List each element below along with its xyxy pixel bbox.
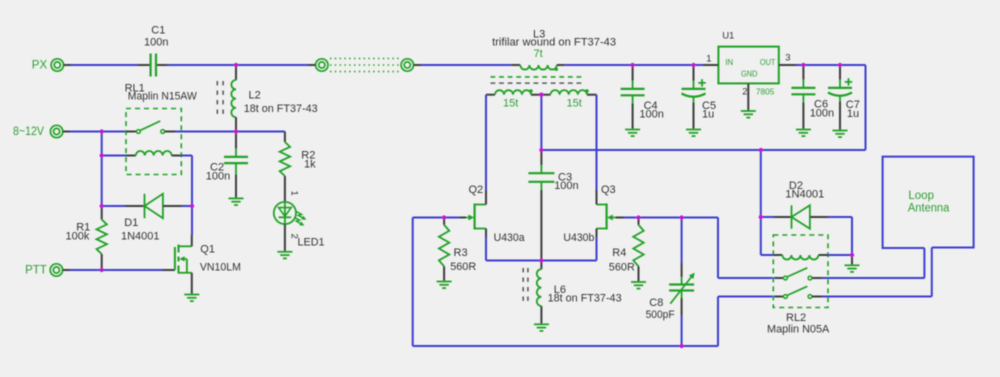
svg-text:R3: R3	[454, 247, 468, 259]
svg-text:Maplin N15AW: Maplin N15AW	[128, 90, 198, 102]
svg-text:100k: 100k	[66, 231, 90, 243]
svg-text:Maplin N05A: Maplin N05A	[767, 323, 830, 335]
svg-text:100n: 100n	[144, 37, 168, 49]
svg-text:U430a: U430a	[494, 232, 526, 244]
svg-text:1: 1	[706, 53, 711, 64]
svg-text:1N4001: 1N4001	[121, 230, 160, 242]
svg-text:15t: 15t	[503, 98, 518, 110]
svg-text:VN10LM: VN10LM	[200, 262, 241, 274]
svg-text:OUT: OUT	[760, 58, 776, 67]
svg-text:C1: C1	[151, 24, 165, 36]
svg-text:C8: C8	[649, 297, 663, 309]
svg-text:Q3: Q3	[601, 184, 616, 196]
svg-text:Antenna: Antenna	[908, 202, 950, 214]
svg-text:560R: 560R	[450, 261, 476, 273]
svg-text:Q2: Q2	[469, 184, 484, 196]
svg-text:100n: 100n	[810, 108, 834, 120]
svg-text:1k: 1k	[304, 158, 316, 170]
svg-text:18t on FT37-43: 18t on FT37-43	[548, 292, 622, 304]
svg-text:PTT: PTT	[25, 265, 47, 277]
svg-text:8~12V: 8~12V	[13, 126, 44, 138]
svg-text:L2: L2	[249, 90, 261, 102]
svg-text:100n: 100n	[639, 109, 663, 121]
svg-text:trifilar wound on FT37-43: trifilar wound on FT37-43	[492, 37, 616, 49]
svg-text:100n: 100n	[206, 170, 230, 182]
svg-text:U1: U1	[722, 31, 734, 42]
svg-text:LED1: LED1	[298, 237, 325, 249]
svg-text:IN: IN	[725, 58, 733, 67]
svg-text:GND: GND	[741, 69, 758, 78]
svg-text:1: 1	[289, 191, 300, 196]
svg-text:18t on FT37-43: 18t on FT37-43	[244, 103, 318, 115]
svg-text:3: 3	[785, 53, 790, 64]
svg-text:1u: 1u	[847, 108, 859, 120]
svg-text:Q1: Q1	[200, 243, 215, 255]
svg-text:R4: R4	[612, 247, 626, 259]
svg-text:1u: 1u	[702, 109, 714, 121]
svg-text:D1: D1	[124, 217, 138, 229]
svg-text:Loop: Loop	[908, 190, 934, 202]
svg-text:7t: 7t	[534, 48, 543, 60]
svg-text:100n: 100n	[554, 180, 578, 192]
svg-text:15t: 15t	[567, 98, 582, 110]
svg-text:1N4001: 1N4001	[785, 188, 824, 200]
svg-text:U430b: U430b	[563, 232, 594, 244]
svg-text:PX: PX	[32, 60, 48, 72]
svg-text:500pF: 500pF	[646, 309, 675, 321]
svg-text:2: 2	[742, 87, 747, 98]
svg-text:560R: 560R	[609, 262, 635, 274]
svg-text:7805: 7805	[756, 88, 775, 97]
